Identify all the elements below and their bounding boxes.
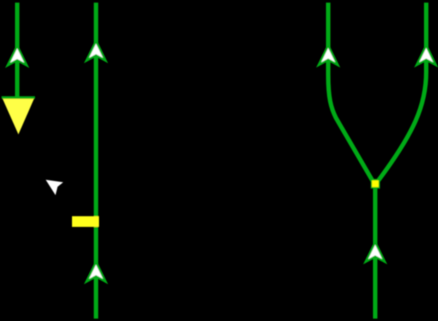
junction node square (yellow with green border) bbox=[371, 179, 380, 189]
arrowhead on wire W1 bbox=[8, 46, 27, 66]
wire W5 (output below junction) bbox=[373, 183, 377, 319]
arrowhead on left branch bbox=[319, 45, 338, 65]
terminal triangle T1 (yellow, pointing down) bbox=[2, 97, 35, 135]
triangle T1 green top edge bbox=[2, 96, 35, 98]
wire W2 (second vertical) bbox=[94, 3, 98, 319]
wire W3 (right structure, left branch curving to junction) bbox=[328, 3, 373, 182]
wire W1 (left vertical) bbox=[15, 3, 19, 98]
arrowhead upper on wire W2 bbox=[86, 41, 105, 61]
wire W4 (right structure, right branch curving to junction) bbox=[378, 3, 426, 182]
arrowhead on output wire bbox=[366, 242, 385, 262]
arrowhead lower on wire W2 bbox=[86, 262, 105, 282]
yellow bar marker on wire W2 bbox=[72, 216, 99, 227]
arrowhead on right branch bbox=[417, 45, 436, 65]
mouse cursor bbox=[46, 180, 64, 195]
